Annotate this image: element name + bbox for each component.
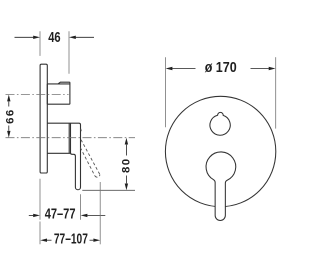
front view: lever handle keyhole shape: [206, 152, 236, 221]
arrowheads for 47-77: [33, 214, 87, 217]
front view: diverter knob with nub: [210, 112, 230, 135]
centerline through handle: [6, 137, 136, 139]
extension lines for o170: [165, 57, 275, 128]
arrowheads for o170: [166, 67, 276, 70]
svg-text:47–77: 47–77: [45, 206, 76, 223]
arrowheads for 46: [33, 36, 76, 39]
arrowheads for 80: [125, 138, 128, 191]
side view: diverter knob profile: [47, 82, 70, 104]
centerline through diverter knob: [6, 94, 69, 96]
dimension line segments for 80: [125, 145, 127, 184]
svg-text:80: 80: [121, 158, 133, 173]
dimension 47-77 (wall to lever face): [29, 179, 106, 223]
dimension line segments for 77-107: [47, 239, 94, 241]
extension lines for 47-77: [40, 179, 81, 220]
front view: round wall plate: [165, 96, 275, 206]
svg-text:ø 170: ø 170: [205, 59, 237, 76]
extension lines for 77-107: [40, 182, 100, 244]
extension lines for 46: [40, 31, 69, 74]
dimension line tails for 47-77: [29, 214, 106, 216]
dimension 46 (knob projection): [15, 29, 95, 74]
svg-text:46: 46: [48, 29, 60, 46]
svg-text:77–107: 77–107: [54, 230, 88, 247]
dimension line tails for 46: [15, 36, 95, 38]
side view: handle block bottom edge: [47, 152, 70, 154]
side view: wall plate profile: [40, 64, 47, 173]
dimension 80 (handle lever length): [121, 138, 133, 191]
dimension 77-107 (wall to extended lever): [40, 182, 100, 247]
dimension line segments for o170: [172, 68, 269, 70]
dimension 66 (knob to handle spacing): [4, 95, 16, 138]
dimension o170 (plate diameter): [165, 57, 275, 128]
side view: handle block and lever profile: [47, 123, 80, 190]
arrowheads for 77-107: [40, 239, 100, 242]
dimension line segments for 66: [8, 102, 10, 131]
extension line at lever bottom level: [82, 189, 135, 191]
side view: handle block front face line: [68, 123, 70, 153]
arrowheads for 66: [7, 95, 10, 138]
svg-text:66: 66: [4, 108, 16, 123]
side view: dashed lever alternate position: [80, 129, 100, 177]
